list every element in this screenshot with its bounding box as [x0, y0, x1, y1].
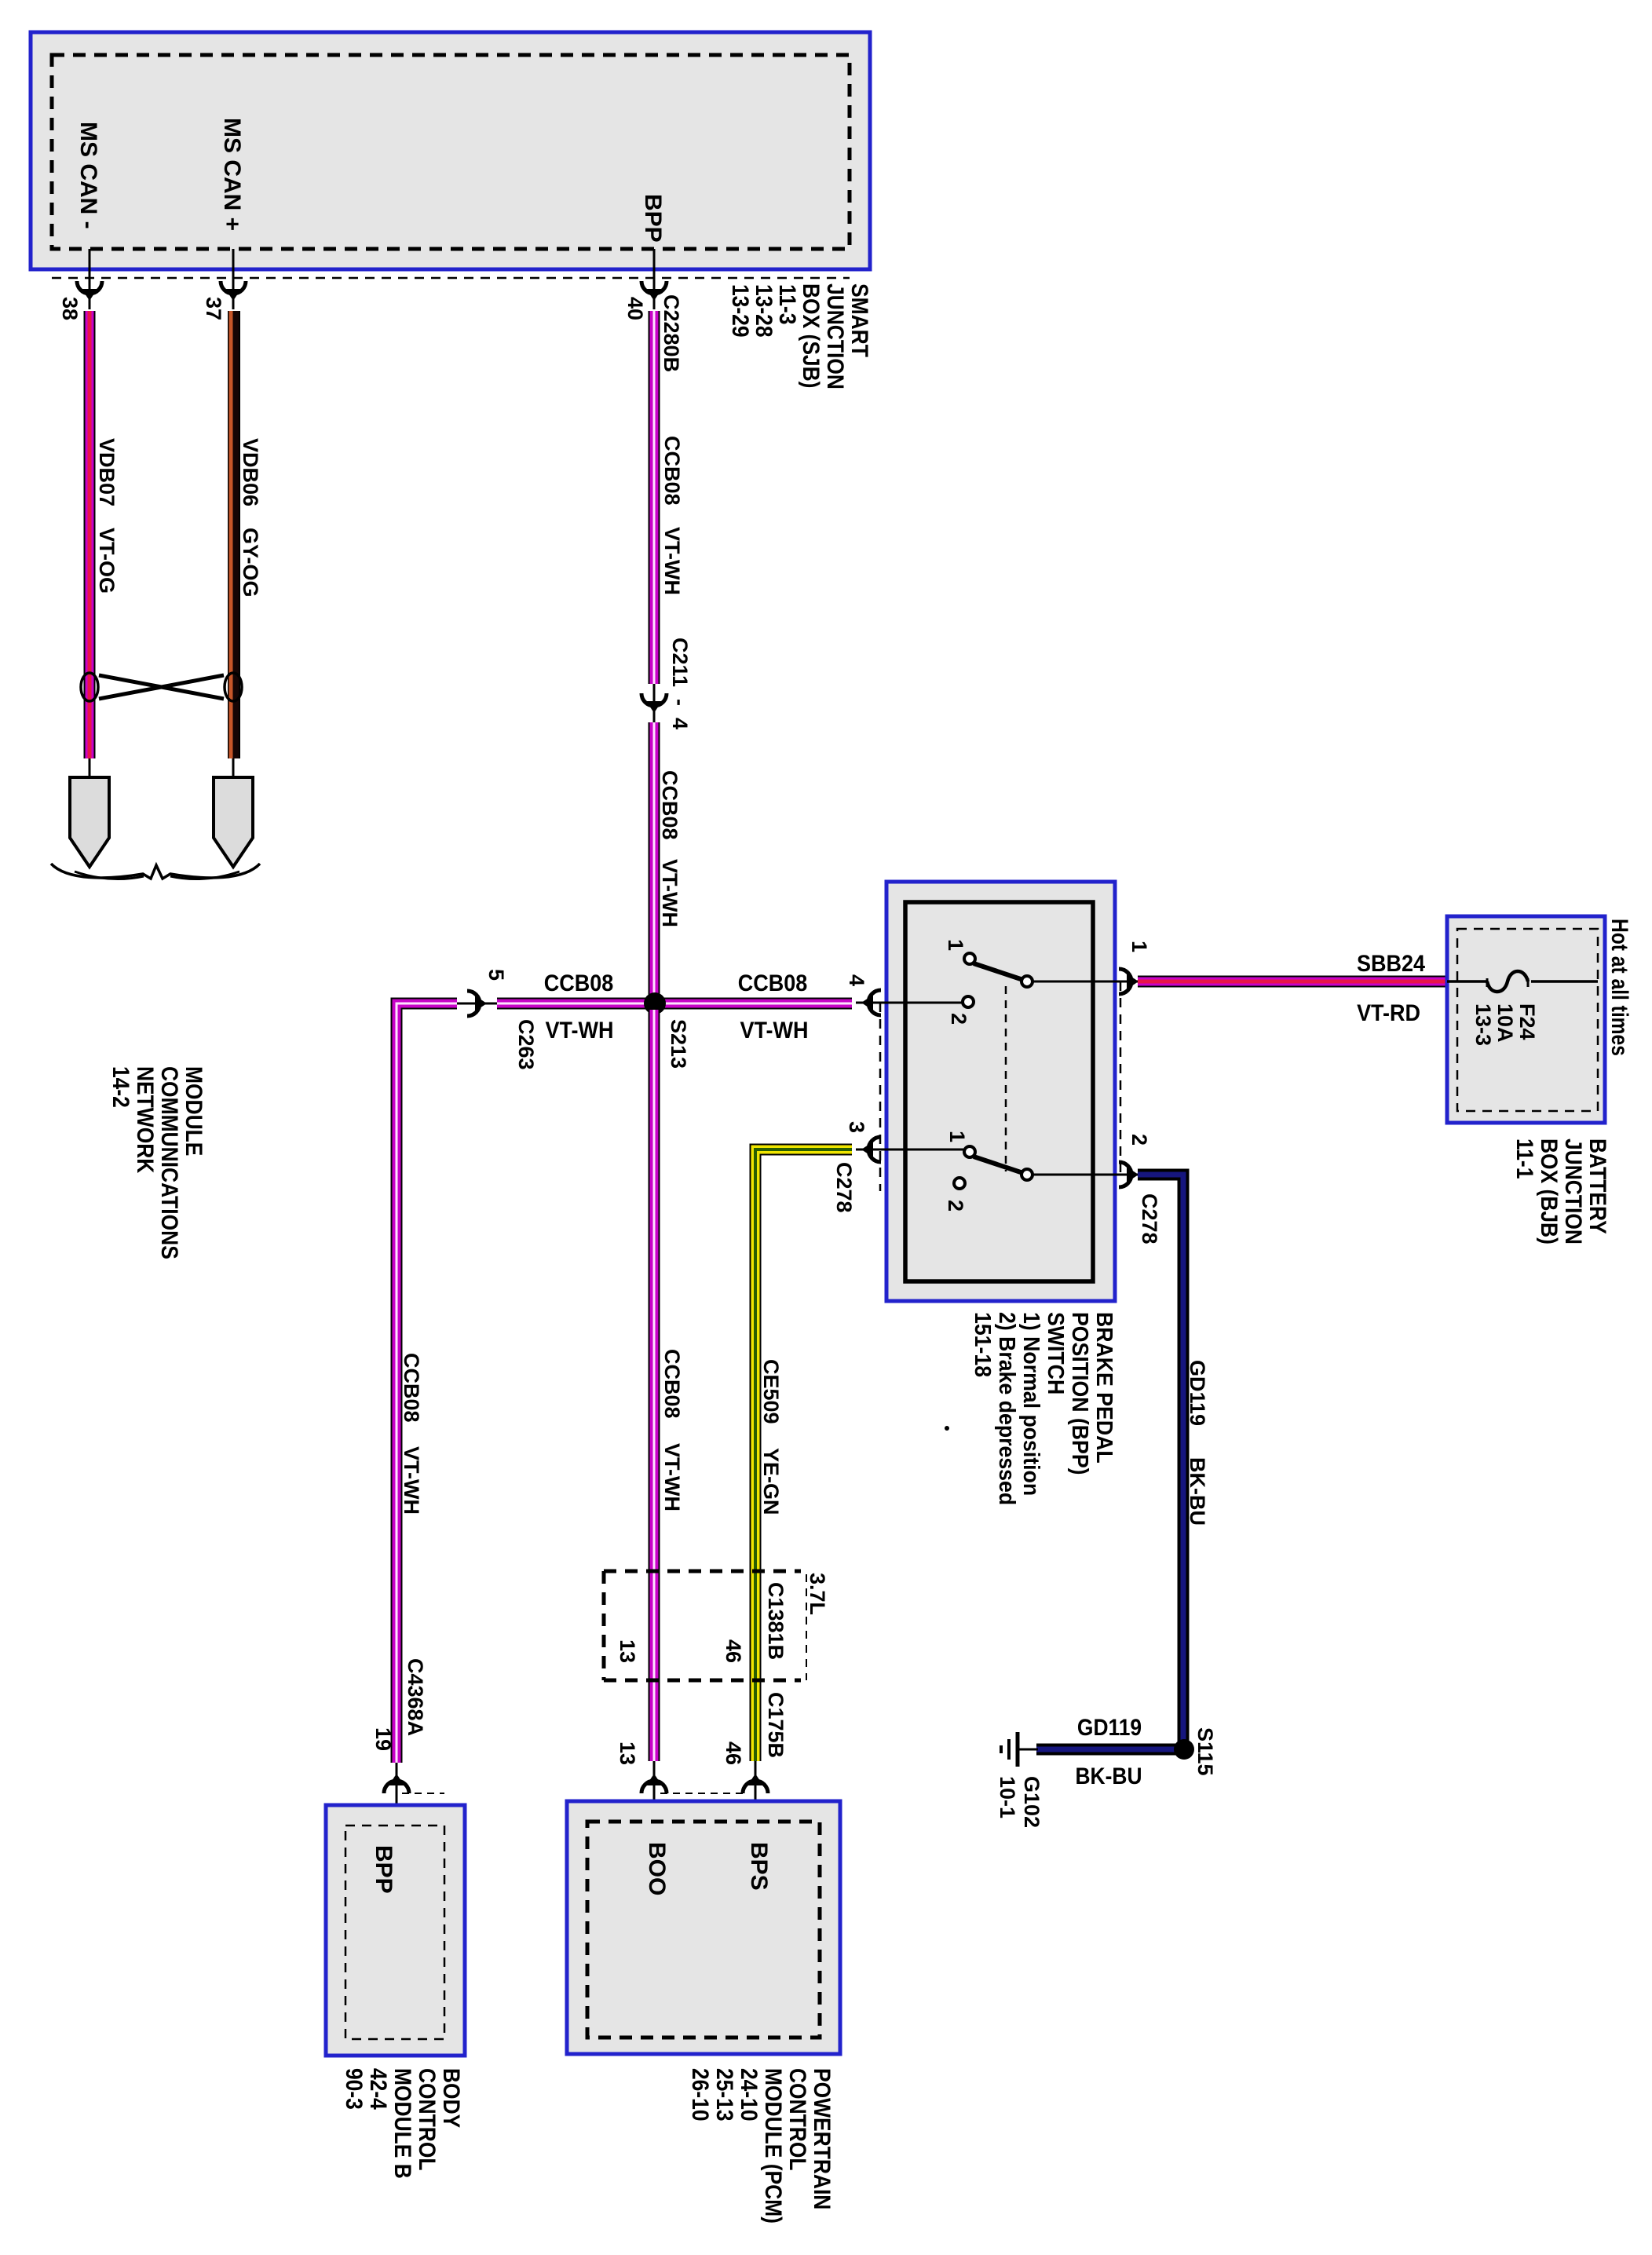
wire CCB08 VT-WH from SJB pin 40 to C211 — [649, 311, 660, 684]
connector arrow pin 2 right — [1119, 1162, 1131, 1187]
svg-text:POSITION (BPP): POSITION (BPP) — [1068, 1312, 1093, 1475]
svg-text:CONTROL: CONTROL — [415, 2068, 441, 2170]
splice S115 — [1174, 1739, 1194, 1760]
terminator connector MS CAN + (pentagon) — [232, 758, 235, 779]
svg-text:13-28: 13-28 — [751, 284, 778, 338]
connector arrow BPS into PCM — [755, 1761, 757, 1822]
svg-text:24-10: 24-10 — [736, 2068, 763, 2122]
svg-text:VT-WH: VT-WH — [400, 1446, 423, 1515]
svg-text:SWITCH: SWITCH — [1043, 1312, 1069, 1394]
PCM inner dashed rectangle — [587, 1822, 820, 2038]
svg-text:2: 2 — [944, 1200, 967, 1212]
svg-text:GD119: GD119 — [1077, 1713, 1142, 1740]
svg-text:14-2: 14-2 — [108, 1066, 135, 1108]
svg-text:CCB08: CCB08 — [544, 970, 613, 997]
wire GD119 BK-BU horizontal to ground — [1036, 1744, 1178, 1756]
wire CCB08 VT-WH from C211 to S213 — [649, 722, 660, 997]
svg-text:11-1: 11-1 — [1512, 1138, 1539, 1179]
svg-text:4: 4 — [845, 974, 868, 986]
top switch contact 2 — [963, 996, 974, 1007]
svg-text:C263: C263 — [514, 1019, 538, 1070]
wire VDB07 VT-OG (MS CAN -) — [84, 311, 96, 758]
svg-text:10-1: 10-1 — [996, 1776, 1019, 1818]
svg-text:C278: C278 — [832, 1162, 856, 1213]
svg-text:MS CAN +: MS CAN + — [219, 118, 245, 231]
bottom switch contact 2 — [954, 1178, 965, 1189]
svg-text:BK-BU: BK-BU — [1075, 1762, 1142, 1789]
bottom switch contact 1 — [964, 1146, 975, 1157]
svg-text:VT-WH: VT-WH — [660, 1443, 684, 1511]
svg-text:25-13: 25-13 — [712, 2068, 739, 2122]
wire stub SJB pin 40 — [653, 249, 656, 309]
in-line connector C263 — [457, 1003, 497, 1005]
svg-text:G102: G102 — [1020, 1776, 1043, 1828]
switch inner black box — [905, 902, 1093, 1281]
BCM inner dashed rectangle — [345, 1826, 444, 2039]
Brake Pedal Position switch box — [886, 882, 1115, 1301]
svg-text:13-29: 13-29 — [728, 284, 755, 338]
fuse F24 feed line — [1447, 980, 1488, 983]
splice junction S213 — [644, 992, 666, 1014]
svg-text:2: 2 — [1128, 1134, 1151, 1146]
connector arrow pin 1 right — [1119, 969, 1131, 994]
connector arrow pin 37 — [221, 281, 246, 294]
svg-text:C211 - 4: C211 - 4 — [668, 638, 692, 729]
svg-text:CE509: CE509 — [759, 1359, 783, 1424]
top switch line contact2 to pin 4 — [856, 1002, 963, 1004]
svg-text:C2280B: C2280B — [660, 294, 683, 372]
connector arrow pin 38 — [77, 281, 102, 294]
svg-text:C278: C278 — [1138, 1193, 1161, 1244]
svg-text:MS CAN -: MS CAN - — [75, 122, 101, 229]
svg-text:BK-BU: BK-BU — [1186, 1457, 1209, 1526]
svg-text:SBB24: SBB24 — [1357, 951, 1425, 978]
connector arrow pin 3 — [868, 1137, 881, 1162]
svg-text:BOX (BJB): BOX (BJB) — [1537, 1138, 1563, 1244]
svg-text:YE-GN: YE-GN — [759, 1448, 783, 1515]
svg-text:BPP: BPP — [640, 194, 666, 243]
svg-text:BPP: BPP — [371, 1845, 397, 1894]
top switch contact 1 — [964, 953, 975, 964]
svg-text:VDB07: VDB07 — [95, 438, 119, 506]
bottom switch blade — [974, 1157, 1023, 1173]
svg-text:2) Brake depressed: 2) Brake depressed — [995, 1312, 1020, 1505]
svg-text:1: 1 — [945, 1131, 969, 1142]
brace squiggle under terminators — [51, 864, 260, 879]
svg-text:VT-WH: VT-WH — [658, 859, 682, 927]
SJB connector C2280B dashed line — [52, 277, 850, 280]
wire GD119 BK-BU from pin 2 down to S115 — [1138, 1175, 1183, 1744]
svg-text:13-3: 13-3 — [1471, 1003, 1495, 1046]
terminator connector MS CAN - (pentagon) — [89, 758, 91, 779]
Powertrain Control Module box — [567, 1801, 840, 2054]
svg-text:10A: 10A — [1493, 1003, 1517, 1043]
svg-text:Hot at all times: Hot at all times — [1606, 919, 1633, 1056]
Battery Junction Box (BJB) — [1447, 916, 1605, 1123]
stray dot — [945, 1426, 949, 1431]
svg-text:40: 40 — [623, 297, 647, 320]
wire CCB08 VT-WH horizontal corner to C263 — [397, 1003, 457, 1763]
wire stub SJB pin 38 — [89, 249, 91, 309]
svg-text:F24: F24 — [1515, 1003, 1539, 1040]
bottom switch line to pin 2 — [1032, 1174, 1138, 1176]
svg-text:BPS: BPS — [746, 1842, 772, 1891]
wire stub SJB pin 37 — [232, 249, 235, 309]
svg-text:3: 3 — [845, 1121, 868, 1133]
svg-text:VT-RD: VT-RD — [1357, 1000, 1420, 1027]
svg-text:VDB06: VDB06 — [239, 438, 262, 506]
SJB inner dashed rectangle — [52, 55, 850, 249]
svg-text:CCB08: CCB08 — [660, 1349, 684, 1419]
ground symbol G102 — [1019, 1749, 1038, 1751]
mechanical link dashed line — [1005, 986, 1007, 1171]
svg-text:VT-WH: VT-WH — [660, 527, 684, 595]
svg-text:SMART: SMART — [847, 283, 874, 357]
svg-text:26-10: 26-10 — [688, 2068, 715, 2122]
top switch line to pin 1 — [1032, 981, 1138, 983]
wire CCB08 VT-WH from S213 down to PCM — [649, 1010, 660, 1761]
svg-text:VT-OG: VT-OG — [95, 528, 119, 594]
connector dashed line C278 left — [879, 1003, 882, 1191]
svg-text:COMMUNICATIONS: COMMUNICATIONS — [157, 1066, 184, 1259]
Body Control Module B box — [326, 1805, 465, 2056]
in-line connector C211-4 — [653, 684, 656, 722]
svg-text:VT-WH: VT-WH — [740, 1018, 809, 1044]
fuse F24 element — [1487, 971, 1528, 992]
svg-text:GD119: GD119 — [1186, 1360, 1209, 1426]
svg-text:BODY: BODY — [439, 2068, 466, 2128]
svg-text:S115: S115 — [1193, 1727, 1217, 1776]
svg-text:JUNCTION: JUNCTION — [1561, 1138, 1588, 1244]
svg-text:19: 19 — [371, 1727, 395, 1751]
top switch blade — [974, 963, 1023, 980]
svg-text:38: 38 — [58, 297, 82, 320]
svg-text:CCB08: CCB08 — [660, 436, 684, 506]
svg-text:11-3: 11-3 — [775, 284, 802, 324]
svg-text:C4368A: C4368A — [404, 1658, 427, 1736]
svg-text:MODULE (PCM): MODULE (PCM) — [761, 2068, 788, 2224]
connector arrow pin 4 — [868, 990, 881, 1015]
svg-text:37: 37 — [202, 297, 225, 320]
svg-text:5: 5 — [484, 969, 508, 981]
svg-text:MODULE: MODULE — [181, 1066, 208, 1156]
svg-text:CCB08: CCB08 — [658, 770, 682, 840]
svg-text:151-18: 151-18 — [970, 1312, 996, 1377]
BCM connector dashed stub — [402, 1793, 444, 1794]
svg-text:1: 1 — [944, 939, 967, 951]
bottom switch line pin3 to contact 1 — [856, 1149, 963, 1151]
svg-text:CCB08: CCB08 — [400, 1353, 423, 1423]
wire SBB24 VT-RD to battery junction box — [1138, 976, 1447, 988]
svg-text:13: 13 — [616, 1639, 639, 1663]
svg-text:POWERTRAIN: POWERTRAIN — [810, 2068, 836, 2209]
svg-text:3.7L: 3.7L — [806, 1573, 829, 1615]
svg-text:90-3: 90-3 — [342, 2068, 368, 2110]
svg-text:S213: S213 — [667, 1019, 690, 1069]
wire VDB06 GY-OG (MS CAN +) — [228, 311, 240, 758]
svg-text:BRAKE PEDAL: BRAKE PEDAL — [1092, 1312, 1117, 1464]
svg-text:CONTROL: CONTROL — [785, 2068, 812, 2170]
BJB inner dashed rectangle — [1457, 929, 1598, 1111]
svg-text:BATTERY: BATTERY — [1585, 1138, 1612, 1234]
svg-text:JUNCTION: JUNCTION — [823, 283, 850, 389]
svg-text:BOO: BOO — [644, 1842, 670, 1895]
svg-text:C175B: C175B — [764, 1692, 788, 1758]
connector arrow BOO into PCM — [653, 1761, 656, 1822]
svg-text:1) Normal position: 1) Normal position — [1019, 1312, 1044, 1496]
svg-text:GY-OG: GY-OG — [239, 528, 262, 598]
wire CCB08 VT-WH horizontal S213 to BPP switch pin 4 — [497, 998, 852, 1010]
svg-text:C1381B: C1381B — [764, 1582, 788, 1660]
svg-text:2: 2 — [947, 1013, 970, 1025]
svg-text:13: 13 — [616, 1742, 639, 1765]
wire CE509 YE-GN from pin 3 to PCM — [755, 1149, 852, 1761]
svg-text:46: 46 — [722, 1639, 745, 1663]
3.7L engine dashed box — [604, 1570, 801, 1573]
svg-text:MODULE B: MODULE B — [390, 2068, 417, 2179]
twisted pair symbol — [81, 673, 98, 701]
PCM connector dashed line — [660, 1793, 748, 1794]
svg-text:42-4: 42-4 — [366, 2068, 393, 2110]
svg-text:BOX (SJB): BOX (SJB) — [799, 283, 825, 388]
svg-text:1: 1 — [1128, 941, 1151, 952]
svg-text:46: 46 — [722, 1742, 745, 1765]
svg-text:VT-WH: VT-WH — [546, 1018, 614, 1044]
connector arrow C4368A into BCM — [396, 1763, 398, 1826]
svg-text:NETWORK: NETWORK — [133, 1066, 159, 1174]
svg-text:CCB08: CCB08 — [738, 970, 807, 997]
Smart Junction Box (SJB) outline — [31, 32, 870, 269]
connector arrow pin 40 C2280B — [641, 281, 667, 294]
connector dashed line C278 right — [1120, 981, 1122, 1178]
